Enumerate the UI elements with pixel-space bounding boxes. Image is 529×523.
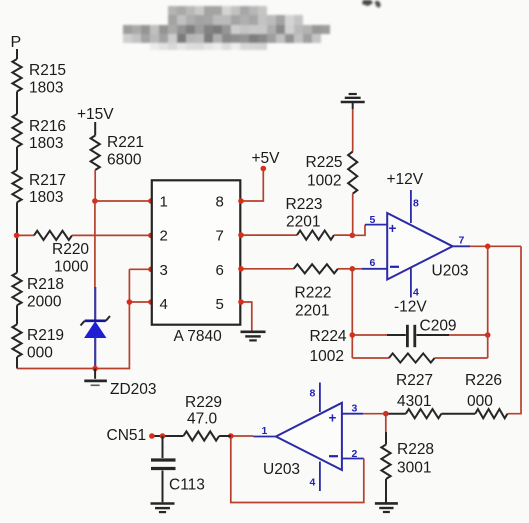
svg-text:1: 1 [160,194,168,211]
svg-text:R226: R226 [465,372,502,389]
wire gnd to R225 [352,109,354,152]
svg-text:R217: R217 [29,172,66,189]
resistor R220 [34,231,72,240]
ground above R225 [341,101,365,104]
svg-text:1002: 1002 [310,348,344,365]
svg-text:5: 5 [216,296,224,313]
svg-text:1000: 1000 [54,259,89,276]
wire R218-R219 [16,305,18,324]
svg-text:3001: 3001 [397,460,431,477]
wire pin 6 [240,268,293,270]
svg-text:000: 000 [467,393,493,410]
svg-text:+5V: +5V [252,150,281,167]
wire output [453,245,470,247]
wire node to opamp + [363,413,386,415]
wire node to R229 [219,435,231,437]
svg-text:R219: R219 [27,327,64,344]
svg-text:+: + [329,410,337,425]
watermark pixelated text [123,6,330,50]
capacitor C113 [162,436,164,458]
svg-text:6: 6 [370,257,376,269]
wire P to R215 [16,49,18,59]
svg-text:+: + [389,221,397,236]
svg-text:R223: R223 [286,196,323,213]
resistor R225 [348,152,357,194]
wire node to R218 [16,235,18,272]
ground at ZD203 [94,369,96,379]
wire output column [487,246,489,358]
resistor R222 [294,264,338,273]
resistor R223 [297,231,334,240]
svg-text:5: 5 [370,214,376,226]
resistor R216 [12,114,21,147]
svg-text:+15V: +15V [77,106,114,123]
wire node to R228 [385,414,387,432]
svg-text:2: 2 [352,448,358,460]
wire R228 to ground [385,479,387,503]
wire R229 to CN51 [152,435,184,437]
resistor R221 [91,136,100,171]
resistor R229 [183,431,219,440]
svg-text:4301: 4301 [397,393,431,410]
svg-text:2: 2 [160,228,168,245]
svg-text:R221: R221 [107,134,144,151]
wire R226-R227 [441,413,475,415]
svg-text:ZD203: ZD203 [110,381,157,398]
resistor R224 [389,353,435,362]
svg-text:7: 7 [459,235,465,247]
wire R219 to bottom rail [16,357,18,369]
wire C209 right [417,334,450,336]
svg-text:6800: 6800 [107,152,142,169]
capacitor C209 [406,325,409,347]
svg-text:2201: 2201 [295,303,329,320]
svg-text:R216: R216 [29,118,66,135]
wire node to opamp - [352,268,362,270]
svg-text:CN51: CN51 [107,427,147,444]
svg-text:8: 8 [310,388,316,400]
svg-text:1803: 1803 [29,135,63,152]
svg-text:1: 1 [262,425,268,437]
svg-text:000: 000 [27,345,53,362]
wire R224 right [435,357,488,359]
svg-text:U203: U203 [432,263,469,280]
wire to pin 4 [129,301,151,303]
svg-text:1002: 1002 [307,173,341,190]
svg-text:R218: R218 [27,276,64,293]
wire R222 to node [338,268,352,270]
wire R217 to node [16,202,18,235]
wire node to opamp + [352,225,365,236]
resistor R228 [381,445,390,480]
svg-text:P: P [11,34,22,51]
resistor R218 [12,273,21,306]
wire output to right rail [507,246,521,413]
resistor R219 [12,324,21,357]
svg-text:R215: R215 [29,62,66,79]
ground at pin 5 [241,330,266,333]
svg-text:C113: C113 [169,477,205,494]
svg-text:R222: R222 [295,285,332,302]
wire R227 to node [386,413,406,415]
svg-text:C209: C209 [420,318,457,335]
wire C209 left [352,334,387,336]
svg-text:R227: R227 [396,372,433,389]
svg-text:R220: R220 [52,241,89,258]
op-isolator U A7840 [152,180,241,324]
zener diode ZD203 [94,287,96,320]
svg-text:4: 4 [310,477,316,489]
svg-text:8: 8 [413,198,419,210]
svg-text:1803: 1803 [29,80,63,97]
svg-text:7: 7 [216,228,224,245]
wire output [254,436,276,438]
resistor R217 [12,170,21,202]
svg-text:3: 3 [352,403,358,415]
wire bottom rail [17,269,129,368]
wire R220 to pin 2 [72,234,152,236]
svg-text:A 7840: A 7840 [174,328,223,345]
svg-text:8: 8 [216,194,224,211]
svg-text:4: 4 [413,287,419,299]
wire node down to zener [94,201,96,289]
wire R221 to node [94,170,96,201]
wire R216-R217 [16,147,18,170]
svg-text:1803: 1803 [29,189,63,206]
wire R225 to node [352,194,354,236]
svg-text:R228: R228 [397,441,434,458]
svg-text:3: 3 [160,262,168,279]
svg-text:+12V: +12V [387,171,424,188]
pin 4 line [410,268,412,298]
svg-text:-12V: -12V [394,299,427,316]
op-amp U203 top [387,213,452,280]
wire node to pin 1 [95,200,152,202]
pin 8 line bottom opamp [319,383,321,413]
resistor R215 [12,59,21,92]
resistor R226 [475,409,507,418]
wire to pin 3 [129,268,151,270]
ground at C113 [151,502,175,505]
ground at R228 [375,502,398,505]
op-amp U203 bottom [276,403,342,470]
wire R224 left [352,357,389,359]
svg-text:U203: U203 [263,461,300,478]
wire pin 7 [240,234,297,236]
svg-text:R225: R225 [306,154,343,171]
wire R223 to node [334,234,352,236]
pin 4 line [319,462,321,492]
wire node down left [351,269,353,358]
wire pin 8 to +5V [240,169,263,202]
mouse cursor [362,0,381,8]
wire pin 5 to ground [240,302,252,331]
wire divider node to R220 [17,234,34,236]
svg-text:47.0: 47.0 [187,411,218,428]
wire - input feedback [342,458,364,460]
wire R215-R216 [16,92,18,115]
svg-text:4: 4 [160,296,168,313]
svg-text:2000: 2000 [27,294,62,311]
svg-text:6: 6 [216,262,224,279]
svg-text:R229: R229 [185,394,222,411]
svg-text:2201: 2201 [286,214,320,231]
resistor R227 [406,409,442,418]
svg-text:R224: R224 [310,328,347,345]
